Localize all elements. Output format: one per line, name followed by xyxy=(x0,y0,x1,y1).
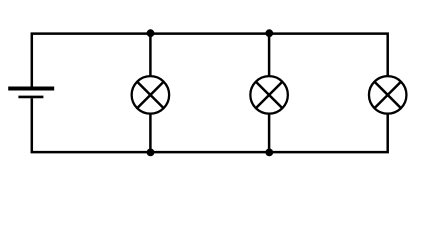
lamp L2 bulb circle xyxy=(250,76,288,114)
wire top bus from battery positive to top-right corner xyxy=(32,34,388,87)
junction node top-left xyxy=(147,29,155,37)
lamp L1 cross stroke 1 xyxy=(137,82,163,108)
lamp L3 cross stroke 1 xyxy=(375,82,401,108)
wire lamp L1 branch lower xyxy=(149,114,152,152)
battery B1 positive plate (long) xyxy=(8,87,54,91)
wire lamp L1 branch upper xyxy=(149,34,152,77)
wire lamp L2 branch lower xyxy=(268,114,271,152)
lamp L2 cross stroke 2 xyxy=(256,82,282,108)
lamp L3 bulb circle xyxy=(369,76,407,114)
junction node top-right xyxy=(265,29,273,37)
lamp L1 cross stroke 2 xyxy=(137,82,163,108)
lamp L3 cross stroke 2 xyxy=(375,82,401,108)
junction node bottom-left xyxy=(147,149,155,157)
battery B1 negative plate (short) xyxy=(18,96,43,99)
junction node bottom-right xyxy=(265,149,273,157)
lamp L2 cross stroke 1 xyxy=(256,82,282,108)
lamp L1 bulb circle xyxy=(132,76,170,114)
wire bottom bus from battery negative to bottom-right corner xyxy=(32,98,388,152)
wire lamp L2 branch upper xyxy=(268,34,271,77)
